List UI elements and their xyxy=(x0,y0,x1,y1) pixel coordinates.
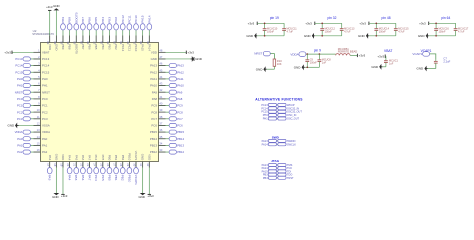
svg-text:VDDA: VDDA xyxy=(15,130,23,134)
pin 40 (PC9) with wire xyxy=(151,102,169,108)
port PC8 xyxy=(169,110,183,114)
svg-text:PH1: PH1 xyxy=(263,118,268,121)
svg-text:8: 8 xyxy=(38,95,40,99)
pin 42 (PA9) with wire xyxy=(152,88,170,94)
pin 6 (PH1) with wire xyxy=(30,82,48,88)
node PA14 to TCK xyxy=(262,167,293,171)
svg-text:PH0: PH0 xyxy=(42,77,48,81)
svg-text:2.2uF: 2.2uF xyxy=(443,60,450,64)
capacitor MCUC13 4.7uF xyxy=(340,23,355,36)
svg-text:PB4: PB4 xyxy=(101,17,105,23)
svg-text:3: 3 xyxy=(38,62,40,66)
node PC14 to OSC32_IN xyxy=(261,107,299,111)
svg-text:9: 9 xyxy=(38,102,40,106)
svg-text:JTAG: JTAG xyxy=(271,159,280,163)
svg-text:GND: GND xyxy=(141,154,145,160)
svg-text:41: 41 xyxy=(159,95,162,99)
svg-text:GND: GND xyxy=(151,57,157,61)
node PB3 to TDO xyxy=(263,173,292,177)
svg-text:43: 43 xyxy=(159,82,162,86)
svg-text:4.7uF: 4.7uF xyxy=(458,30,465,33)
svg-text:5: 5 xyxy=(38,75,40,79)
pin 63 (VSS) with wire xyxy=(53,10,59,50)
svg-text:SWD: SWD xyxy=(272,136,280,140)
ground GND (pin 9) xyxy=(294,64,305,70)
pin 38 (PC7) with wire xyxy=(151,115,169,121)
svg-text:GND: GND xyxy=(138,195,144,199)
svg-text:+3v3: +3v3 xyxy=(305,21,312,25)
svg-text:+3v3: +3v3 xyxy=(359,54,366,58)
svg-text:44: 44 xyxy=(159,75,162,79)
svg-text:VDDA: VDDA xyxy=(290,52,298,56)
ground GND (VBAT) xyxy=(371,64,382,70)
wire VCAP1 bottom xyxy=(428,68,436,70)
svg-text:PB12: PB12 xyxy=(177,150,184,154)
svg-text:VDD: VDD xyxy=(147,154,151,160)
port PA14 xyxy=(147,15,152,30)
svg-text:PC15: PC15 xyxy=(42,70,50,74)
svg-text:12: 12 xyxy=(37,121,40,125)
svg-text:PB1: PB1 xyxy=(114,175,118,181)
port PB3 xyxy=(107,17,112,30)
pin 21 (PA5) with wire xyxy=(73,155,79,168)
svg-text:PB4: PB4 xyxy=(263,177,268,180)
svg-text:6: 6 xyxy=(38,82,40,86)
port PC9 xyxy=(169,103,183,107)
svg-text:100nF: 100nF xyxy=(325,30,333,33)
svg-text:PB6: PB6 xyxy=(88,44,92,50)
svg-text:PC2: PC2 xyxy=(17,110,23,114)
port PB1 xyxy=(114,168,119,181)
svg-text:22: 22 xyxy=(79,163,83,166)
junction bottom xyxy=(375,35,377,37)
svg-text:100nF: 100nF xyxy=(439,30,447,33)
svg-text:PA8: PA8 xyxy=(152,97,158,101)
svg-text:PC2: PC2 xyxy=(42,110,48,114)
capacitor MCUC12 100nF xyxy=(320,23,335,36)
ground GND (VCAP1) xyxy=(417,66,428,72)
port PA15 xyxy=(140,15,145,30)
svg-text:+3v3: +3v3 xyxy=(359,21,366,25)
port PB14 xyxy=(169,137,184,141)
ground GND (pin 63) xyxy=(53,4,59,11)
port BOOT0 xyxy=(74,12,79,30)
svg-text:VCAP1: VCAP1 xyxy=(412,52,422,56)
svg-text:PC7: PC7 xyxy=(151,117,157,121)
svg-text:PB5: PB5 xyxy=(94,17,98,23)
svg-text:STM32F446RET6: STM32F446RET6 xyxy=(32,32,54,36)
svg-text:PB13: PB13 xyxy=(177,144,184,148)
port PB8 xyxy=(67,17,72,30)
power +3v3 (pin 48) xyxy=(359,21,369,25)
svg-text:PD2: PD2 xyxy=(114,44,118,50)
pin 58 (PB6) with wire xyxy=(86,30,92,50)
svg-text:PB15: PB15 xyxy=(150,130,157,134)
svg-text:PC11: PC11 xyxy=(127,15,131,23)
svg-text:GND: GND xyxy=(294,65,302,69)
svg-text:18: 18 xyxy=(53,163,57,166)
svg-text:PA6: PA6 xyxy=(81,175,85,181)
pin 29 (PB10) with wire xyxy=(126,153,132,167)
svg-text:PC11: PC11 xyxy=(127,44,131,51)
wire GND rail xyxy=(257,35,284,37)
port PB15 xyxy=(169,130,184,134)
port PA1 xyxy=(17,143,30,147)
ground GND (pin 32) xyxy=(304,33,315,39)
svg-text:GND: GND xyxy=(417,67,425,71)
svg-text:BOOT0: BOOT0 xyxy=(74,12,78,23)
svg-text:21: 21 xyxy=(73,163,77,166)
pin 41 (PA8) with wire xyxy=(152,95,170,101)
port PB13 xyxy=(169,143,184,147)
svg-text:PB8: PB8 xyxy=(68,17,72,23)
svg-text:+3v3: +3v3 xyxy=(147,194,154,198)
power +3v3 (pin 19) xyxy=(61,194,68,198)
node PA15 to TDI xyxy=(262,170,292,174)
port PA10 xyxy=(169,84,184,88)
svg-text:PC1: PC1 xyxy=(42,104,48,108)
junction VDDA a xyxy=(306,53,308,55)
svg-text:15: 15 xyxy=(37,141,40,145)
svg-text:VDD: VDD xyxy=(61,154,65,160)
port PB7 xyxy=(81,17,86,30)
pin 56 (PB4) with wire xyxy=(99,30,105,50)
node PC13 to WKUP xyxy=(261,103,294,107)
pin 31 (VSS) with wire xyxy=(139,154,145,193)
svg-text:PA15: PA15 xyxy=(141,15,145,23)
svg-text:25: 25 xyxy=(99,163,103,166)
pin 4 (PC15) with wire xyxy=(30,68,49,74)
port PB0 xyxy=(107,168,112,181)
svg-text:PA14: PA14 xyxy=(147,44,151,51)
junction bottom xyxy=(321,35,323,37)
capacitor C9 100nF xyxy=(305,54,317,67)
svg-text:PA15: PA15 xyxy=(141,44,145,51)
svg-text:PA5: PA5 xyxy=(74,155,78,161)
svg-text:GND: GND xyxy=(53,4,59,8)
port PA13 xyxy=(169,64,184,68)
pin 10 (PC2) with wire xyxy=(30,108,48,114)
port PA8 xyxy=(169,97,183,101)
port PA3 xyxy=(47,168,52,181)
port PC12 xyxy=(120,15,125,30)
ground GND (pin 31) xyxy=(138,193,145,199)
port PC14 xyxy=(15,64,30,68)
wire +3v3 rail xyxy=(257,22,284,24)
svg-text:+3v3: +3v3 xyxy=(188,51,195,55)
svg-text:PC3: PC3 xyxy=(17,117,23,121)
pin 25 (PC5) with wire xyxy=(99,155,105,168)
svg-text:PC12: PC12 xyxy=(121,15,125,23)
power +3v3 (pin 64) xyxy=(419,21,429,25)
svg-text:NRST: NRST xyxy=(254,52,262,56)
wire resistor to GND xyxy=(273,66,275,69)
svg-text:PC10: PC10 xyxy=(134,44,138,52)
svg-text:VDDA: VDDA xyxy=(42,130,50,134)
svg-text:PA14: PA14 xyxy=(262,143,269,146)
pin 17 (PA3) with wire xyxy=(46,155,52,168)
svg-text:PA4: PA4 xyxy=(68,175,72,181)
port PC5 xyxy=(100,168,105,181)
port PH0 xyxy=(17,77,30,81)
node PB4 to TRST xyxy=(263,176,294,180)
svg-text:PB7: PB7 xyxy=(81,17,85,23)
port PC6 xyxy=(169,123,183,127)
node PC15 to OSC32_OUT xyxy=(261,110,302,114)
port NRST xyxy=(15,90,31,94)
svg-text:PB7: PB7 xyxy=(81,44,85,50)
svg-text:PB14: PB14 xyxy=(177,137,184,141)
svg-text:NRST: NRST xyxy=(42,90,50,94)
svg-text:100nF: 100nF xyxy=(310,61,318,64)
svg-text:PB6: PB6 xyxy=(88,17,92,23)
svg-text:26: 26 xyxy=(106,163,110,166)
svg-text:PA7: PA7 xyxy=(88,155,92,161)
svg-text:4.7uF: 4.7uF xyxy=(398,30,405,33)
pin 14 (PA0) with wire xyxy=(30,135,47,141)
port PC10 xyxy=(134,15,139,30)
svg-text:PB4: PB4 xyxy=(101,44,105,50)
port PC11 xyxy=(127,15,132,30)
svg-text:PA11: PA11 xyxy=(177,77,184,81)
svg-text:PH0: PH0 xyxy=(17,77,23,81)
svg-text:GND: GND xyxy=(358,34,366,38)
pin 61 (PB8) with wire xyxy=(66,30,72,50)
svg-text:pin 19: pin 19 xyxy=(270,16,279,20)
svg-text:PC14: PC14 xyxy=(15,64,22,68)
svg-text:1uF: 1uF xyxy=(389,62,394,65)
wire bead to +3v3 xyxy=(350,54,357,56)
port PA7 xyxy=(87,168,92,181)
pin 22 (PA6) with wire xyxy=(79,155,85,168)
resistor R10 10K xyxy=(273,59,282,66)
svg-text:GND: GND xyxy=(54,44,58,50)
port PA5 xyxy=(74,168,79,181)
IC U2 STM32F446RET6 body xyxy=(41,43,159,162)
pin 48 (VDD) with wire xyxy=(151,48,186,54)
wire +3v3 rail xyxy=(369,22,396,24)
pin 26 (PB0) with wire xyxy=(106,155,112,168)
ground GND (pin 19) xyxy=(246,33,257,39)
svg-text:7: 7 xyxy=(38,88,40,92)
svg-text:PB14: PB14 xyxy=(150,137,157,141)
svg-text:pin 9: pin 9 xyxy=(314,48,321,52)
power +3v3 (pin 9) xyxy=(357,54,365,58)
svg-text:PB10: PB10 xyxy=(127,153,131,160)
svg-text:20: 20 xyxy=(66,163,70,166)
port PB5 xyxy=(94,17,99,30)
svg-text:PA6: PA6 xyxy=(81,155,85,161)
svg-text:32: 32 xyxy=(146,163,150,166)
svg-text:10: 10 xyxy=(37,108,40,112)
pin 55 (PB3) with wire xyxy=(106,30,112,50)
svg-text:17: 17 xyxy=(46,163,50,166)
svg-text:PB13: PB13 xyxy=(150,144,157,148)
port PC15 xyxy=(15,70,30,74)
port PC7 xyxy=(169,117,183,121)
svg-text:PC0: PC0 xyxy=(17,97,23,101)
svg-text:PC14: PC14 xyxy=(42,64,50,68)
power +3v3 (pin 1) xyxy=(4,51,12,55)
ground GND (pin 48) xyxy=(358,33,369,39)
svg-text:100nF: 100nF xyxy=(379,30,387,33)
power +3v3 (pin 48) xyxy=(186,51,194,55)
power +3v3 (pin 19) xyxy=(248,21,258,25)
junction bottom xyxy=(435,35,437,37)
svg-text:PB9: PB9 xyxy=(61,17,65,23)
svg-text:PC8: PC8 xyxy=(177,110,183,114)
svg-text:PB5: PB5 xyxy=(94,44,98,50)
svg-text:GND: GND xyxy=(246,34,254,38)
svg-text:PA14: PA14 xyxy=(147,15,151,23)
svg-text:GND: GND xyxy=(52,195,58,199)
pin 33 (PB12) with wire xyxy=(150,148,169,154)
svg-text:45: 45 xyxy=(159,68,162,72)
svg-text:PA4: PA4 xyxy=(68,155,72,161)
svg-text:+3v3: +3v3 xyxy=(46,5,53,9)
svg-text:PA7: PA7 xyxy=(87,175,91,181)
power +3v3 (pin 64) xyxy=(46,5,53,11)
port PC4 xyxy=(94,168,99,181)
svg-text:34: 34 xyxy=(159,141,162,145)
pin 8 (PC0) with wire xyxy=(30,95,48,101)
junction top xyxy=(321,22,323,24)
pin 60 (BOOT0) with wire xyxy=(73,30,79,55)
junction GND (pin 9) xyxy=(306,66,308,68)
pin 11 (PC3) with wire xyxy=(30,115,48,121)
svg-text:PB15: PB15 xyxy=(177,130,184,134)
svg-text:PC12: PC12 xyxy=(121,44,125,52)
svg-text:+3v3: +3v3 xyxy=(248,21,255,25)
node PA14 to SWCLK xyxy=(262,143,297,147)
svg-text:PA9: PA9 xyxy=(177,90,183,94)
capacitor MCUC11 4.7uF xyxy=(282,23,297,36)
svg-text:38: 38 xyxy=(159,115,162,119)
svg-text:PA8: PA8 xyxy=(177,97,183,101)
pin 35 (PB14) with wire xyxy=(150,135,169,141)
node PH0 to OSC_IN xyxy=(263,114,297,118)
pin 50 (PA15) with wire xyxy=(139,30,145,52)
wire GND rail xyxy=(315,35,342,37)
pin 57 (PB5) with wire xyxy=(93,30,99,50)
svg-text:PC10: PC10 xyxy=(134,15,138,23)
svg-text:40: 40 xyxy=(159,102,162,106)
pin 49 (PA14) with wire xyxy=(146,30,152,52)
svg-text:BOOT0: BOOT0 xyxy=(74,44,78,54)
port PA0 xyxy=(17,137,30,141)
pin 20 (PA4) with wire xyxy=(66,155,72,168)
pin 36 (PB15) with wire xyxy=(150,128,169,134)
svg-text:PB3: PB3 xyxy=(108,44,112,50)
power +3v3 (pin 32) xyxy=(147,194,154,198)
svg-text:pin 48: pin 48 xyxy=(382,16,391,20)
capacitor MCUC14 100nF xyxy=(374,23,389,36)
svg-text:10K: 10K xyxy=(277,62,282,66)
port PB4 xyxy=(100,17,105,30)
pin 34 (PB13) with wire xyxy=(150,141,169,147)
pin 1 (VBAT) with wire xyxy=(12,48,50,54)
svg-text:PB2: PB2 xyxy=(121,155,125,161)
svg-text:GND: GND xyxy=(418,34,426,38)
port PA11 xyxy=(169,77,184,81)
ground GND (pin 64) xyxy=(418,33,429,39)
pin 16 (PA2) with wire xyxy=(30,148,47,154)
pin 52 (PC11) with wire xyxy=(126,30,132,52)
svg-text:VDD: VDD xyxy=(48,44,52,50)
svg-text:PA13: PA13 xyxy=(177,64,184,68)
svg-text:PA2: PA2 xyxy=(42,150,48,154)
port PA6 xyxy=(81,168,86,181)
power +3v3 (pin 32) xyxy=(305,21,315,25)
svg-text:PC6: PC6 xyxy=(151,124,157,128)
svg-text:GND: GND xyxy=(256,67,264,71)
svg-text:PA3: PA3 xyxy=(48,155,52,161)
svg-text:PB2: PB2 xyxy=(121,175,125,181)
svg-text:PA12: PA12 xyxy=(177,70,184,74)
svg-text:PD2: PD2 xyxy=(114,17,118,23)
port PB9 xyxy=(61,17,66,30)
port PA2 xyxy=(17,150,30,154)
svg-text:VBAT: VBAT xyxy=(384,49,392,53)
wire VCAP1 to cap xyxy=(430,54,436,60)
pin 5 (PH0) with wire xyxy=(30,75,48,81)
svg-text:PA1: PA1 xyxy=(42,144,48,148)
svg-text:VDD: VDD xyxy=(151,50,157,54)
svg-text:PC1: PC1 xyxy=(17,104,23,108)
junction bottom xyxy=(264,35,266,37)
wire VBAT bottom xyxy=(385,65,387,67)
pin 15 (PA1) with wire xyxy=(30,141,47,147)
pin 37 (PC6) with wire xyxy=(151,121,169,127)
port PB6 xyxy=(87,17,92,30)
pin 24 (PC4) with wire xyxy=(93,155,99,168)
pin 7 (NRST) with wire xyxy=(30,88,50,94)
svg-text:ALTERNATIVE FUNCTIONS: ALTERNATIVE FUNCTIONS xyxy=(255,97,303,101)
svg-text:11: 11 xyxy=(37,115,40,119)
wire VDDA rail xyxy=(306,53,336,55)
svg-text:PC13: PC13 xyxy=(15,57,22,61)
pin 47 (VSS) with wire xyxy=(151,55,191,61)
svg-text:1uF: 1uF xyxy=(322,61,327,64)
node PH1 to OSC_OUT xyxy=(263,117,300,121)
port PC13 xyxy=(15,57,30,61)
svg-text:29: 29 xyxy=(126,163,130,166)
svg-text:100nF: 100nF xyxy=(267,30,275,33)
ground GND (NRST) xyxy=(256,66,267,72)
power +3v3 (VBAT) xyxy=(377,54,385,58)
junction VDDA b xyxy=(319,53,321,55)
svg-text:1: 1 xyxy=(38,48,40,52)
svg-text:pin 32: pin 32 xyxy=(327,16,336,20)
svg-text:PC6: PC6 xyxy=(177,124,183,128)
svg-text:2: 2 xyxy=(38,55,40,59)
pin 53 (PC12) with wire xyxy=(119,30,125,52)
svg-text:19: 19 xyxy=(59,163,63,166)
ground GND (pin 12 VSSA) xyxy=(8,123,19,129)
svg-text:4.7uF: 4.7uF xyxy=(344,30,351,33)
svg-text:VCAP1: VCAP1 xyxy=(134,151,138,161)
svg-text:VSSA: VSSA xyxy=(42,124,50,128)
wire VBAT top xyxy=(384,55,387,57)
svg-text:FERRITE BEAD: FERRITE BEAD xyxy=(338,50,358,54)
svg-text:28: 28 xyxy=(119,163,123,166)
svg-text:GND: GND xyxy=(304,34,312,38)
pin 39 (PC8) with wire xyxy=(151,108,169,114)
svg-text:GND: GND xyxy=(8,124,16,128)
svg-text:PA11: PA11 xyxy=(150,77,157,81)
svg-text:27: 27 xyxy=(113,163,117,166)
port PC1 xyxy=(17,103,30,107)
